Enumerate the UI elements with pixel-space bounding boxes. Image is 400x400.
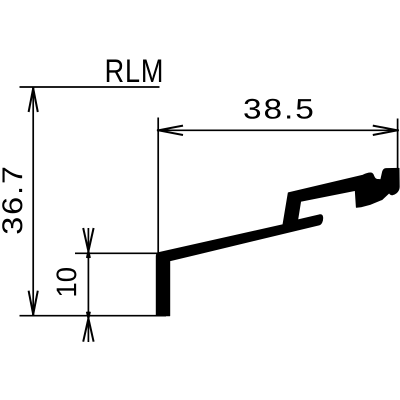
- label RLM: [107, 60, 161, 83]
- dimension line 10 (vertical): [87, 228, 89, 342]
- arrowhead (outside, pointing down) at top of 10: [83, 228, 93, 258]
- extension line right for 38.5: [397, 119, 399, 169]
- extension line left for 38.5: [157, 118, 159, 254]
- arrowhead left of 38.5: [157, 126, 183, 135]
- dimension text 36.7 (rotated): [2, 168, 22, 234]
- arrowhead down at bottom of 36.7: [29, 291, 38, 316]
- arrowhead up at top of 36.7: [29, 87, 38, 112]
- arrowhead right of 38.5: [373, 126, 399, 135]
- extension line for 10 (top, at profile corner level): [75, 252, 160, 254]
- dimension text 38.5: [244, 99, 312, 119]
- dimension text 10 (rotated): [56, 268, 76, 296]
- arrowhead (outside, pointing up) at bottom of 10: [83, 312, 93, 342]
- bottom datum line: [20, 315, 167, 317]
- top datum line (RLM underline): [20, 86, 160, 88]
- profile cross-section (solid black): [156, 168, 399, 315]
- dimension line 36.7 (vertical): [32, 87, 34, 316]
- dimension line 38.5 (horizontal): [158, 129, 397, 131]
